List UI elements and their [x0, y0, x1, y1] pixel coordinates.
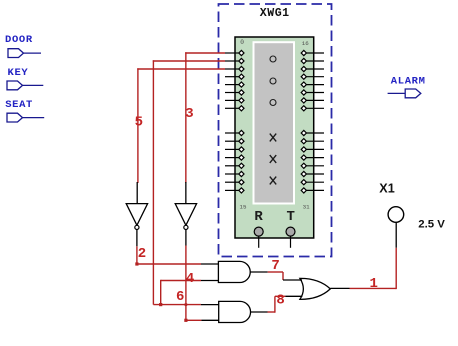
XWG1 left pin 13 stub wire — [225, 173, 239, 175]
XWG1 display bezel — [253, 41, 296, 204]
XWG1 left pin 10 terminal — [239, 147, 244, 152]
wire net8 vertical — [274, 296, 276, 312]
wire net7 horizontal — [268, 271, 283, 273]
inverter U2 input pin stub — [185, 182, 187, 204]
wire net4 horizontal into AND U3 — [161, 280, 201, 282]
XWG1 right pin 19 stub wire — [306, 76, 324, 78]
XWG1 right pin 23 terminal — [301, 106, 306, 111]
AND U3 input B pin stub — [201, 280, 218, 282]
svg-text:DOOR: DOOR — [5, 34, 33, 46]
OR gate U5 body — [300, 278, 330, 299]
display O mark 2 — [270, 78, 276, 84]
AND gate U3 body — [218, 261, 250, 282]
XWG1 left pin 13 terminal — [239, 171, 244, 176]
wire horizontal into AND U4 input B — [186, 319, 202, 321]
XWG1 right pin 22 stub wire — [306, 99, 324, 101]
XWG1 left pin 11 stub wire — [225, 157, 239, 159]
XWG1 left pin 12 terminal — [239, 163, 244, 168]
XWG1 right pin 20 stub wire — [306, 84, 324, 86]
XWG1 left pin 0 terminal — [239, 50, 244, 55]
XWG1 right pin 28 terminal — [301, 163, 306, 168]
XWG1 left pin 2 stub wire — [225, 68, 239, 70]
junction dot U2 output corner — [184, 319, 187, 322]
inverter U2 triangle — [175, 204, 196, 226]
XWG1 left pin 3 stub wire — [225, 76, 239, 78]
wire net6 bottom horizontal into AND U4 — [153, 304, 201, 306]
XWG1 left pin 15 terminal — [239, 188, 244, 193]
XWG1 left pin 15 stub wire — [225, 189, 239, 191]
XWG1 left pin 0 stub wire — [225, 52, 239, 54]
wire stub of connector ALARM — [388, 92, 406, 94]
XWG1 left pin 6 terminal — [239, 98, 244, 103]
wire net3 vertical to inverter U2 — [185, 52, 187, 183]
wire net5 vertical to inverter U1 — [137, 68, 139, 183]
terminal R stub wire — [258, 236, 260, 248]
XWG1 right pin 17 terminal — [301, 58, 306, 63]
XWG1 left pin 4 stub wire — [225, 84, 239, 86]
AND U4 input B pin stub — [201, 319, 218, 321]
wire net2 vertical from U1 output — [136, 246, 138, 264]
svg-text:KEY: KEY — [8, 67, 29, 79]
connector symbol SEAT — [7, 113, 23, 122]
inverter U1 bubble — [135, 225, 139, 229]
selection dashed box around XWG1 — [219, 4, 332, 257]
svg-text:31: 31 — [303, 203, 310, 210]
XWG1 right pin 18 stub wire — [306, 68, 324, 70]
XWG1 right pin 19 terminal — [301, 74, 306, 79]
XWG1 left pin 11 terminal — [239, 155, 244, 160]
display O mark 1 — [270, 56, 276, 62]
XWG1 right pin 27 terminal — [301, 155, 306, 160]
wire net2 horizontal into AND U3 — [137, 263, 201, 265]
XWG1 left pin 3 terminal — [239, 74, 244, 79]
terminal R circle — [254, 227, 263, 236]
wire net7 vertical — [282, 272, 284, 280]
inverter U1 input pin stub — [136, 182, 138, 204]
inverter U1 triangle — [126, 204, 147, 226]
svg-text:16: 16 — [302, 40, 309, 47]
svg-text:0: 0 — [240, 39, 244, 46]
XWG1 right pin 25 terminal — [301, 139, 306, 144]
XWG1 right pin 18 terminal — [301, 66, 306, 71]
wire stub of connector SEAT — [23, 117, 45, 119]
svg-text:8: 8 — [276, 292, 284, 308]
wire net4 vertical — [160, 280, 162, 305]
svg-text:ALARM: ALARM — [391, 76, 426, 88]
XWG1 left pin 7 terminal — [239, 106, 244, 111]
XWG1 left pin 8 terminal — [239, 130, 244, 135]
probe X1 pin stub — [395, 222, 397, 247]
terminal T stub wire — [290, 236, 292, 248]
XWG1 right pin 29 terminal — [301, 171, 306, 176]
svg-text:4: 4 — [186, 271, 194, 287]
junction dot net4/net6 — [159, 303, 162, 306]
XWG1 left pin 12 stub wire — [225, 165, 239, 167]
svg-text:7: 7 — [271, 258, 279, 274]
display X mark 1 — [270, 134, 276, 142]
inverter U2 output pin stub — [185, 230, 187, 246]
wire net8 horizontal from U4 — [268, 311, 275, 313]
XWG1 right pin 25 stub wire — [306, 140, 324, 142]
XWG1 left pin 10 stub wire — [225, 148, 239, 150]
connector symbol DOOR — [8, 49, 24, 58]
wire net8 horizontal into OR U5 — [275, 295, 285, 297]
XWG1 right pin 16 terminal — [301, 50, 306, 55]
OR U5 input A pin stub — [283, 279, 302, 281]
AND U3 input A pin stub — [201, 263, 218, 265]
XWG1 left pin 1 terminal — [239, 58, 244, 63]
XWG1 left pin 9 stub wire — [225, 140, 239, 142]
wire net6 horizontal to XWG1 pin 1 — [153, 60, 225, 62]
XWG1 right pin 16 stub wire — [306, 52, 324, 54]
inverter U2 bubble — [184, 225, 188, 229]
XWG1 left pin 1 stub wire — [225, 60, 239, 62]
AND U4 input A pin stub — [201, 304, 219, 306]
wire from U2 output vertical — [185, 246, 187, 321]
AND U3 output pin stub — [250, 271, 267, 273]
XWG1 right pin 22 terminal — [301, 98, 306, 103]
wire stub of connector DOOR — [24, 52, 42, 54]
wire net1 horizontal — [350, 287, 397, 289]
XWG1 right pin 30 stub wire — [306, 181, 324, 183]
AND gate U4 body — [219, 301, 251, 322]
display O mark 3 — [270, 100, 276, 106]
svg-text:2: 2 — [138, 246, 146, 262]
AND U4 output pin stub — [251, 311, 268, 313]
XWG1 right pin 17 stub wire — [306, 60, 324, 62]
XWG1 right pin 28 stub wire — [306, 165, 324, 167]
display X mark 3 — [270, 177, 276, 185]
XWG1 right pin 26 stub wire — [306, 148, 324, 150]
XWG1 right pin 23 stub wire — [306, 107, 324, 109]
XWG1 left pin 14 stub wire — [225, 181, 239, 183]
wire net3 horizontal to XWG1 pin 0 — [185, 52, 225, 54]
XWG1 left pin 7 stub wire — [225, 107, 239, 109]
junction dot crossing net6 — [185, 303, 188, 306]
svg-text:3: 3 — [185, 106, 193, 122]
inverter U1 output pin stub — [136, 230, 138, 247]
XWG1 right pin 20 terminal — [301, 82, 306, 87]
XWG1 display screen — [255, 43, 294, 202]
XWG1 right pin 26 terminal — [301, 147, 306, 152]
connector symbol ALARM — [405, 89, 421, 98]
wire stub of connector KEY — [23, 84, 44, 86]
XWG1 right pin 24 stub wire — [306, 132, 324, 134]
wire net5 horizontal to XWG1 pin 2 — [137, 68, 225, 70]
XWG1 left pin 14 terminal — [239, 180, 244, 185]
svg-text:5: 5 — [135, 115, 143, 131]
terminal T circle — [286, 227, 295, 236]
XWG1 right pin 27 stub wire — [306, 157, 324, 159]
svg-text:15: 15 — [240, 203, 247, 210]
XWG1 right pin 29 stub wire — [306, 173, 324, 175]
XWG1 right pin 21 terminal — [301, 90, 306, 95]
junction dot net2 corner — [135, 262, 138, 265]
svg-text:SEAT: SEAT — [5, 99, 33, 111]
svg-text:R: R — [254, 209, 263, 225]
probe X1 circle — [388, 207, 404, 223]
XWG1 left pin 4 terminal — [239, 82, 244, 87]
svg-text:6: 6 — [176, 289, 184, 305]
svg-text:2.5 V: 2.5 V — [418, 218, 445, 230]
svg-text:T: T — [287, 209, 295, 225]
OR U5 input B pin stub — [285, 295, 302, 297]
wire net1 vertical — [395, 248, 397, 289]
OR U5 output pin stub — [330, 287, 349, 289]
display X mark 2 — [270, 155, 276, 163]
XWG1 right pin 21 stub wire — [306, 92, 324, 94]
XWG1 right pin 24 terminal — [301, 130, 306, 135]
svg-text:X1: X1 — [379, 182, 394, 196]
svg-text:1: 1 — [370, 276, 378, 292]
wire net6 long vertical — [152, 60, 154, 304]
XWG1 right pin 31 terminal — [301, 188, 306, 193]
XWG1 left pin 8 stub wire — [225, 132, 239, 134]
XWG1 left pin 5 stub wire — [225, 92, 239, 94]
XWG1 left pin 2 terminal — [239, 66, 244, 71]
XWG1 left pin 6 stub wire — [225, 99, 239, 101]
XWG1 right pin 31 stub wire — [306, 189, 324, 191]
XWG1 left pin 9 terminal — [239, 139, 244, 144]
XWG1 left pin 5 terminal — [239, 90, 244, 95]
XWG1 right pin 30 terminal — [301, 180, 306, 185]
connector symbol KEY — [7, 81, 23, 90]
svg-text:XWG1: XWG1 — [260, 7, 290, 20]
word generator XWG1 body — [235, 37, 314, 238]
